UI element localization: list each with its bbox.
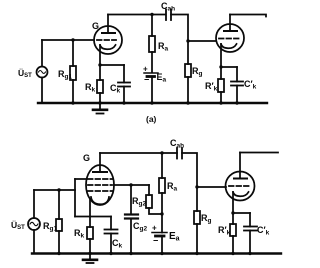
wire Rg bottom lead (bottom)	[196, 224, 198, 254]
anode plate bar tube2 (bottom)	[234, 178, 247, 180]
pentode G (bottom tube)	[86, 165, 114, 205]
wire Rg top lead	[187, 41, 189, 64]
resistor Ra (bottom)	[159, 178, 165, 193]
node junction Rg1/grid wire	[71, 38, 74, 41]
ground rail (bottom)	[32, 252, 281, 254]
svg-text:R′k: R′k	[218, 225, 231, 237]
wire grid line tube2 (bottom)	[197, 186, 226, 188]
wire Cah to Rg corner	[171, 15, 188, 42]
wire Rg1 bottom lead (bottom)	[58, 231, 60, 254]
ground rail (top)	[38, 102, 267, 104]
wire source bottom column	[41, 78, 43, 104]
cathode curve tube1	[100, 45, 116, 49]
resistor R'k (top)	[218, 79, 224, 92]
capacitor Ck (top)	[118, 82, 130, 84]
wire g3 stub to left	[75, 178, 87, 180]
anode lead tube2	[229, 15, 231, 32]
source U_ST (bottom)	[28, 218, 40, 230]
wire source top column	[41, 40, 43, 67]
wire anode tube2 to right (bottom)	[240, 152, 278, 154]
wire g3 to cathode bus	[74, 179, 76, 217]
svg-text:Ea: Ea	[157, 72, 167, 84]
resistor Rk (bottom)	[87, 227, 93, 239]
wire Rg bottom lead	[187, 77, 189, 103]
wire anode top rail tube1 to Cah	[108, 14, 166, 16]
capacitor Cah (bottom)	[176, 148, 178, 159]
wire Ra to battery	[151, 52, 153, 73]
wire battery bottom lead	[151, 77, 153, 104]
resistor R'k (bottom)	[230, 224, 236, 236]
svg-text:G: G	[83, 153, 90, 163]
wire Ck top lead	[123, 65, 125, 83]
battery Ea (bottom)	[152, 232, 167, 234]
capacitor Cg2	[125, 213, 138, 215]
resistor Rg2	[146, 195, 152, 208]
anode plate bar tube1	[102, 32, 115, 34]
wire Rg1 top lead	[72, 40, 74, 66]
wire Ck top lead (bottom)	[110, 217, 112, 230]
svg-text:Cah: Cah	[161, 1, 175, 13]
svg-text:+: +	[152, 224, 157, 233]
wire grid line tube1	[42, 39, 94, 41]
wire source bottom column (bottom ckt)	[33, 230, 35, 254]
wire source top column (bottom ckt)	[33, 190, 35, 218]
svg-text:Rg2: Rg2	[132, 196, 146, 208]
grid g3 dashes pentode	[88, 178, 112, 180]
node junction Rg1 tap (bottom)	[57, 188, 60, 191]
svg-text:Ck: Ck	[112, 238, 123, 250]
wire Rk bottom lead (bottom)	[89, 239, 91, 254]
ground symbol (bottom)	[89, 254, 91, 260]
wire R'k bottom lead	[220, 92, 222, 103]
grid dashes tube1	[97, 39, 116, 41]
svg-text:Cg2: Cg2	[133, 221, 147, 233]
wire C'k bottom lead (bottom)	[249, 231, 251, 254]
wire R'k bottom lead (bottom)	[232, 236, 234, 254]
node cathode tube2 (bottom)	[231, 211, 234, 214]
cathode lead pentode	[89, 199, 91, 227]
grid g2 dashes pentode	[88, 184, 112, 186]
anode lead tube2 (bottom)	[239, 153, 241, 179]
wire Cg2 bottom lead	[130, 219, 132, 254]
resistor Ra (top)	[149, 36, 155, 52]
wire anode top rail (bottom ckt)	[100, 152, 177, 154]
svg-text:ÜST: ÜST	[11, 220, 25, 231]
cathode curve pentode	[91, 197, 109, 204]
wire Rk top lead	[99, 65, 101, 80]
cathode curve tube2 (bottom)	[233, 192, 249, 196]
wire Cah to Rg corner (bottom)	[182, 153, 197, 187]
wire Ck bottom lead	[123, 87, 125, 104]
cathode curve tube2	[221, 44, 237, 48]
wire cathode bus (bottom tube)	[75, 216, 111, 218]
source U_ST (top)	[37, 67, 48, 78]
svg-text:G: G	[92, 21, 99, 31]
svg-text:(a): (a)	[146, 114, 157, 124]
cathode lead tube2	[220, 44, 222, 67]
svg-text:Rk: Rk	[85, 82, 96, 94]
triode U2 (bottom right tube)	[226, 172, 255, 201]
wire Rg2 top lead	[148, 185, 150, 195]
svg-text:Ra: Ra	[167, 181, 178, 193]
grid dashes tube2	[219, 38, 239, 40]
wire cathode node to Ck	[100, 64, 124, 66]
wire Ra top lead	[151, 15, 153, 37]
svg-text:Ra: Ra	[158, 41, 169, 53]
svg-text:Rk: Rk	[74, 228, 85, 240]
svg-text:+: +	[143, 65, 148, 74]
svg-text:ÜST: ÜST	[18, 68, 32, 79]
node junction grid2 tap (bottom)	[195, 185, 198, 188]
node rail junctions (top)	[71, 101, 238, 104]
svg-text:−: −	[144, 75, 149, 85]
anode plate bar pentode	[93, 171, 107, 173]
anode lead tube1	[107, 15, 109, 34]
wire cathode node2 to C'k	[221, 66, 237, 68]
resistor Rg1 (top)	[70, 66, 76, 80]
svg-text:Rg: Rg	[201, 213, 212, 225]
wire Rg1 bottom lead	[72, 80, 74, 103]
capacitor Ck (bottom)	[105, 229, 118, 231]
cathode lead tube1	[99, 45, 101, 65]
node junction Rg2/battery	[160, 212, 163, 215]
resistor Rk (top)	[97, 80, 103, 93]
node cathode tube2	[219, 65, 222, 68]
triode U1 (tube G top)	[94, 26, 122, 54]
resistor Rg (top)	[185, 64, 191, 77]
cathode lead tube2 (bottom)	[232, 192, 234, 213]
wire screen grid g2 line	[114, 184, 149, 186]
wire R'k top lead	[220, 67, 222, 79]
wire Cg2 top lead	[130, 185, 132, 215]
wire grid line tube2	[188, 40, 216, 42]
wire C'k top lead	[236, 67, 238, 82]
wire Ra to battery (bottom)	[161, 193, 163, 233]
node rail junctions (bottom)	[57, 252, 251, 255]
wire grid line (bottom ckt)	[34, 189, 75, 191]
wire R'k top lead (bottom)	[232, 213, 234, 224]
wire Rk bottom lead	[99, 93, 101, 103]
node junction Cg2 tap	[129, 183, 132, 186]
wire Rg top lead (bottom)	[196, 187, 198, 211]
wire Rg2 to battery node	[149, 208, 162, 214]
svg-text:Cah: Cah	[170, 138, 184, 150]
wire cathode node to C'k (bottom)	[233, 212, 250, 214]
node cathode tube1	[98, 63, 101, 66]
resistor Rg (bottom)	[194, 211, 200, 224]
ground symbol (top)	[99, 103, 101, 109]
node junction Ra tap	[150, 13, 153, 16]
anode lead pentode	[99, 153, 101, 172]
wire Rg1 top lead (bottom)	[58, 190, 60, 219]
node junction Ra tap (bottom)	[160, 151, 163, 154]
capacitor Cah (top)	[165, 10, 167, 21]
wire anode tube2 to right	[230, 15, 266, 17]
svg-text:Rg: Rg	[192, 66, 203, 78]
grid g1 dashes pentode	[88, 190, 112, 192]
node junction grid2 tap	[186, 39, 189, 42]
wire battery bottom lead (bottom)	[161, 236, 163, 254]
triode U2 (top right tube)	[216, 24, 244, 52]
wire Ck bottom lead (bottom)	[110, 234, 112, 254]
wire Ra top lead (bottom)	[161, 153, 163, 178]
capacitor C'k (bottom)	[244, 226, 257, 228]
svg-text:C′k: C′k	[257, 225, 270, 237]
svg-text:R′k: R′k	[205, 81, 218, 93]
anode plate bar tube2	[224, 30, 237, 32]
svg-text:C′k: C′k	[244, 79, 257, 91]
capacitor C'k (top)	[231, 81, 243, 83]
battery Ea (top)	[144, 72, 158, 74]
svg-text:−: −	[153, 236, 158, 246]
svg-text:Ea: Ea	[169, 231, 180, 243]
resistor Rg1 (bottom)	[56, 219, 62, 231]
wire C'k top lead (bottom)	[249, 213, 251, 227]
svg-text:Ck: Ck	[110, 83, 121, 95]
grid dashes tube2 (bottom)	[229, 185, 249, 187]
wire C'k bottom lead	[236, 86, 238, 104]
